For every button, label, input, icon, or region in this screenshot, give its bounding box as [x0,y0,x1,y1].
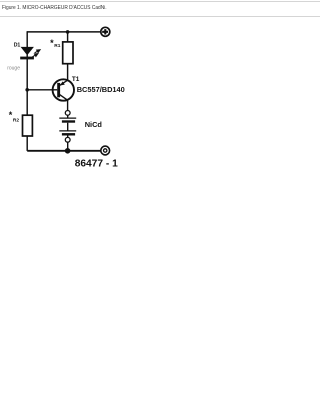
svg-text:86477 - 1: 86477 - 1 [75,159,118,170]
svg-text:R2: R2 [13,117,19,123]
svg-text:R1: R1 [54,43,60,49]
svg-text:rouge: rouge [7,66,20,72]
svg-text:BC557/BD140: BC557/BD140 [77,85,125,94]
svg-text:NiCd: NiCd [85,120,103,129]
svg-text:T1: T1 [72,76,80,83]
svg-text:D1: D1 [14,42,21,48]
